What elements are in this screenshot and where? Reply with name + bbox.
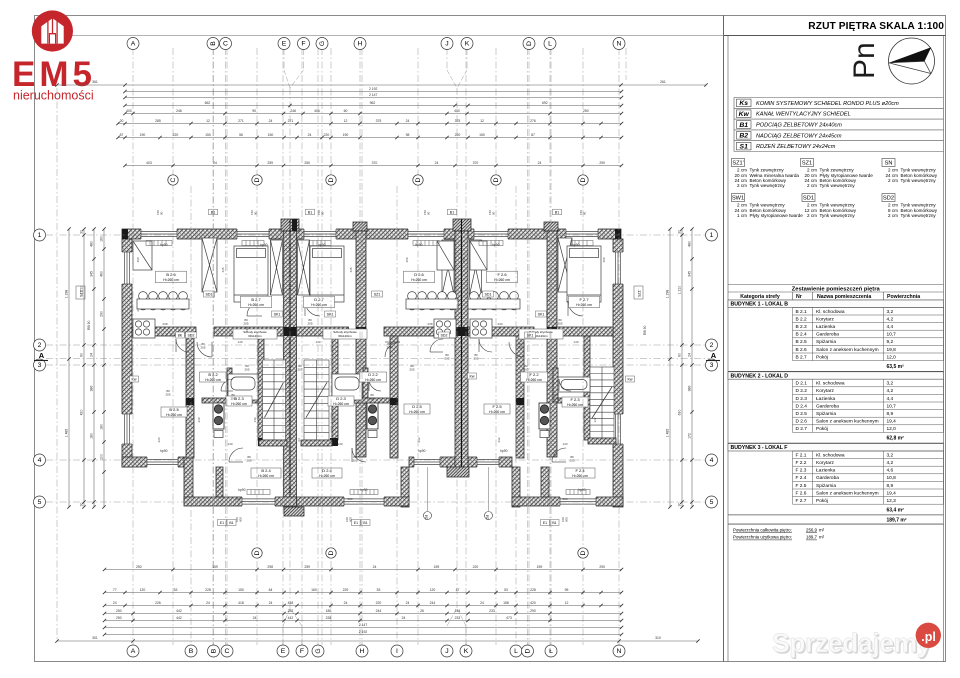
attic stair D [323,329,367,339]
svg-text:2: 2 [710,342,714,349]
partition B bath [227,368,232,402]
svg-text:143: 143 [562,442,567,446]
svg-text:BUDYNEK 3 - LOKAL F: BUDYNEK 3 - LOKAL F [731,445,788,451]
wardrobe F [558,238,572,292]
svg-text:F 2.2: F 2.2 [529,372,539,377]
svg-text:H=260 cm: H=260 cm [163,278,179,282]
room label D 2.4 [312,468,342,478]
svg-text:256,9: 256,9 [806,527,818,532]
svg-text:220: 220 [324,133,330,137]
svg-text:Kl. schodowa: Kl. schodowa [816,381,845,387]
wc F [539,403,550,438]
svg-text:600: 600 [238,517,242,522]
exterior right wall [613,239,623,507]
svg-text:276: 276 [530,119,536,123]
svg-text:400: 400 [454,109,460,113]
svg-text:12: 12 [206,119,210,123]
svg-text:53: 53 [504,588,508,592]
svg-text:Powierzchnia: Powierzchnia [887,294,920,300]
kitchen hob B [133,319,155,338]
svg-text:345: 345 [687,271,691,277]
svg-text:1 210: 1 210 [677,286,681,295]
door F spizarnia [479,339,492,352]
svg-text:140: 140 [245,327,249,332]
svg-text:180: 180 [326,609,332,613]
bed F 2.7 [567,246,601,302]
svg-text:RB 90: RB 90 [87,320,91,330]
svg-text:D: D [580,177,587,182]
wall type SD2 [882,194,938,218]
svg-text:271: 271 [238,119,244,123]
svg-text:140: 140 [253,417,257,422]
internal wall B living-corridor [132,327,196,336]
svg-text:418: 418 [288,601,294,605]
party wall 2 foot [447,467,469,477]
staircase D [304,360,329,440]
svg-text:Nazwa pomieszczenia: Nazwa pomieszczenia [817,294,871,300]
svg-text:205: 205 [386,345,391,349]
svg-text:159: 159 [434,565,440,569]
svg-text:232: 232 [497,437,501,442]
door D corridor [385,342,400,357]
svg-text:10,8: 10,8 [887,475,897,481]
door block B [229,448,243,462]
svg-text:480: 480 [687,241,691,247]
wardrobe F near party wall 2 [470,240,482,295]
grand total row [728,514,944,516]
svg-text:250: 250 [116,609,122,613]
svg-text:190: 190 [343,133,349,137]
door D bedroom [305,301,320,316]
svg-text:24: 24 [89,353,93,357]
wc B [213,403,224,438]
svg-text:400: 400 [126,109,132,113]
svg-text:290: 290 [599,161,605,165]
svg-text:Tynk wewnętrzny: Tynk wewnętrzny [901,178,937,183]
svg-text:590: 590 [235,497,240,501]
svg-text:D 2.5: D 2.5 [412,404,422,409]
svg-text:2 147: 2 147 [359,623,368,627]
svg-text:420: 420 [530,601,536,605]
concrete cores S1 [122,219,621,446]
svg-text:F 2.3: F 2.3 [796,468,807,474]
bathtub F [558,377,590,392]
svg-text:692: 692 [542,101,548,105]
svg-text:F: F [301,41,305,48]
svg-text:B1: B1 [229,521,233,525]
svg-text:2 cm: 2 cm [807,183,817,188]
svg-text:24: 24 [269,601,273,605]
svg-text:95: 95 [565,588,569,592]
svg-text:3,2: 3,2 [887,381,894,387]
svg-text:158: 158 [503,601,509,605]
bathtub D [332,374,362,400]
svg-text:250: 250 [583,109,589,113]
window dim marks below plan [235,517,568,522]
svg-text:24: 24 [402,616,406,620]
svg-text:24: 24 [406,601,410,605]
svg-text:98: 98 [406,133,410,137]
svg-text:246: 246 [290,109,296,113]
svg-text:D 2.7: D 2.7 [796,426,808,432]
svg-text:D: D [328,177,335,182]
svg-text:10,7: 10,7 [887,403,897,409]
EM5 logo circle [12,10,96,102]
svg-text:190: 190 [140,133,146,137]
left dimension chains [64,227,70,508]
svg-text:BUDYNEK 1 - LOKAL B: BUDYNEK 1 - LOKAL B [731,302,789,308]
svg-text:N: N [617,648,622,655]
svg-text:375: 375 [376,119,382,123]
svg-text:205: 205 [246,458,251,462]
svg-text:24: 24 [687,353,691,357]
svg-text:205: 205 [243,321,248,325]
svg-text:B: B [189,648,194,655]
room label F 2.6 [487,271,518,283]
svg-text:B 2.6: B 2.6 [166,272,176,277]
svg-text:Kw: Kw [739,111,750,118]
svg-text:244: 244 [430,601,436,605]
svg-text:64: 64 [269,588,273,592]
interior dimension notes [136,257,606,501]
svg-text:600: 600 [348,517,352,522]
svg-text:D: D [254,177,261,182]
svg-text:53: 53 [377,588,381,592]
svg-text:285: 285 [155,119,161,123]
svg-text:I: I [396,648,398,655]
svg-text:H=260 cm: H=260 cm [365,378,381,382]
svg-text:12,3: 12,3 [887,498,897,504]
svg-text:220: 220 [455,133,461,137]
svg-text:386: 386 [687,386,691,392]
svg-text:10,7: 10,7 [887,332,897,338]
svg-text:D 2.1: D 2.1 [796,381,808,387]
dining set B [137,292,189,310]
svg-text:2 cm: 2 cm [888,213,898,218]
svg-text:370: 370 [473,161,479,165]
partition block B hall [216,467,223,497]
wall type SD1 [802,194,857,218]
svg-text:Kl. schodowa: Kl. schodowa [816,309,845,315]
svg-text:D 2.3: D 2.3 [796,396,808,402]
room label D 2.2 [360,372,387,382]
svg-text:J: J [445,41,448,48]
svg-text:3: 3 [38,362,42,369]
svg-text:12,0: 12,0 [887,426,897,432]
misc small tags [204,291,215,297]
svg-text:420: 420 [79,410,83,416]
svg-text:SZ1′: SZ1′ [732,161,743,167]
svg-text:D 2.4: D 2.4 [796,403,808,409]
block B left wall [184,457,193,503]
svg-text:Tynk wewnętrzny: Tynk wewnętrzny [820,183,856,188]
building section BUDYNEK 3 - LOKAL F [728,444,944,514]
bathtub B [228,374,258,400]
room label B 2.4 [251,468,281,478]
svg-text:D 2.3: D 2.3 [336,396,346,401]
dining set F [468,292,520,310]
svg-text:B 2.4: B 2.4 [796,332,808,338]
svg-text:B 2.5: B 2.5 [169,407,179,412]
room label F 2.2 [521,372,548,382]
party wall 1 joint line [289,219,291,507]
svg-text:Dd: Dd [425,515,429,520]
svg-text:19,4: 19,4 [887,490,897,496]
svg-text:Garderoba: Garderoba [816,403,839,409]
svg-text:Ks: Ks [739,100,748,107]
svg-text:2: 2 [38,342,42,349]
svg-text:F 2.5: F 2.5 [796,483,807,489]
svg-text:442: 442 [288,616,294,620]
svg-text:140: 140 [237,340,242,344]
svg-text:C: C [170,177,177,182]
svg-text:205: 205 [165,392,170,396]
svg-text:8,9: 8,9 [887,483,894,489]
svg-text:hp90: hp90 [415,243,423,247]
wardrobe B near party wall [271,240,283,295]
svg-text:Spiżarnia: Spiżarnia [816,339,836,345]
svg-text:D 2.6: D 2.6 [796,419,808,425]
svg-text:4,2: 4,2 [887,460,894,466]
svg-text:2 147: 2 147 [369,93,378,97]
svg-text:60x120cm: 60x120cm [338,334,352,338]
room label F 2.5 [484,404,510,414]
svg-text:Spiżarnia: Spiżarnia [816,483,836,489]
svg-text:246: 246 [176,109,182,113]
svg-text:Garderoba: Garderoba [816,332,839,338]
svg-text:1 485: 1 485 [665,429,669,438]
svg-text:Spiżarnia: Spiżarnia [816,411,836,417]
svg-text:D 2.6: D 2.6 [414,272,424,277]
exterior bottom wall right segment [468,457,512,467]
svg-text:1 485: 1 485 [64,429,68,438]
top dimension chains [123,87,623,93]
svg-text:56: 56 [239,133,243,137]
svg-text:460: 460 [405,257,409,262]
svg-text:159: 159 [212,565,218,569]
svg-text:G: G [319,41,326,46]
svg-text:259: 259 [267,161,273,165]
svg-text:F: F [300,648,304,655]
wc D [367,403,378,438]
svg-text:100: 100 [99,454,103,460]
door B bath [221,379,233,391]
svg-text:2 cm: 2 cm [888,178,898,183]
svg-text:RZUT PIĘTRA SKALA 1:100: RZUT PIĘTRA SKALA 1:100 [808,21,944,32]
svg-text:J: J [445,648,448,655]
svg-text:77: 77 [113,588,117,592]
partition F corridor [516,336,524,458]
door block F [552,448,566,462]
door block D [352,448,366,462]
svg-text:220: 220 [173,133,179,137]
svg-text:Kl. schodowa: Kl. schodowa [816,452,845,458]
svg-text:B1: B1 [450,210,454,214]
svg-text:230: 230 [521,417,525,422]
wall type SZ1 [801,159,874,189]
staircase B [263,360,286,440]
summary powierzchnia lines [733,527,825,539]
svg-text:442: 442 [176,616,182,620]
svg-text:H=260 cm: H=260 cm [567,403,583,407]
svg-text:271: 271 [288,119,294,123]
svg-text:B 2.7: B 2.7 [796,354,808,360]
room label B 2.7 [241,296,272,308]
hp90 annotations [160,243,586,492]
wall type SZ1′ [732,159,800,189]
partition D bath [363,368,368,402]
door F bedroom [568,301,583,316]
svg-text:Dd: Dd [486,515,490,520]
svg-text:150: 150 [238,588,244,592]
svg-text:m²: m² [819,527,825,532]
svg-text:m²: m² [819,535,825,540]
svg-text:F 2.6: F 2.6 [497,272,507,277]
svg-text:228: 228 [205,588,211,592]
svg-text:Korytarz: Korytarz [816,388,834,394]
partition D corridor [390,336,398,458]
exterior left wall [122,239,132,467]
svg-text:244: 244 [376,609,382,613]
exterior bottom wall left segment [122,457,184,467]
svg-text:hp90: hp90 [238,488,246,492]
svg-text:120: 120 [140,588,146,592]
partition F bath [553,368,558,402]
svg-text:SW1: SW1 [732,196,744,202]
Sprzedajemy.pl watermark [772,623,941,660]
svg-text:H=260 cm: H=260 cm [311,303,327,307]
svg-text:A: A [131,41,136,48]
stair sill B [259,440,287,446]
svg-text:KANAŁ WENTYLACYJNY SCHIEDEL: KANAŁ WENTYLACYJNY SCHIEDEL [756,112,851,118]
svg-text:445: 445 [554,267,558,272]
wall tag SZ1 right [634,286,643,299]
svg-text:Garderoba: Garderoba [816,475,839,481]
svg-text:A: A [131,648,136,655]
section marker A right [706,351,720,361]
svg-text:Nr: Nr [796,294,802,300]
room label D 2.3 [328,396,354,406]
svg-text:4,2: 4,2 [887,388,894,394]
block D right wall [401,467,409,507]
wall tag SZ1 left [76,286,85,299]
bed D 2.7 [310,246,344,302]
svg-text:24: 24 [538,161,542,165]
internal wall B bedroom-corridor [214,327,284,336]
svg-text:361: 361 [92,80,98,84]
svg-text:RB 90: RB 90 [643,325,647,335]
svg-text:F 2.7: F 2.7 [796,498,807,504]
wardrobe D near party wall 2 [442,240,454,295]
svg-text:SZ1: SZ1 [802,161,812,167]
svg-text:2 192: 2 192 [359,630,368,634]
svg-text:H=260 cm: H=260 cm [576,303,592,307]
svg-text:19,4: 19,4 [887,419,897,425]
room label D 2.7 [304,296,335,308]
svg-text:24: 24 [206,601,210,605]
svg-text:B1: B1 [739,122,748,129]
window dim marks above plan [156,210,586,215]
svg-text:Pokój: Pokój [816,426,828,432]
svg-text:24: 24 [253,616,257,620]
svg-text:250: 250 [136,565,142,569]
svg-text:230: 230 [497,322,502,326]
svg-text:19,8: 19,8 [887,347,897,353]
svg-text:220: 220 [473,565,479,569]
svg-text:205: 205 [557,321,562,325]
svg-text:hp90: hp90 [160,449,168,453]
door D bath [369,379,381,391]
grid bubbles upper intermediate [168,175,178,185]
svg-text:hp90: hp90 [500,449,508,453]
svg-text:Ł: Ł [549,648,553,655]
internal wall D unit [356,231,366,457]
svg-text:Tynk wewnętrzny: Tynk wewnętrzny [820,213,856,218]
svg-text:nieruchomości: nieruchomości [13,89,94,103]
svg-text:298: 298 [267,565,273,569]
svg-text:9,2: 9,2 [887,339,894,345]
svg-text:140: 140 [337,442,342,446]
svg-text:5: 5 [38,499,42,506]
svg-text:60x120cm: 60x120cm [248,334,262,338]
wardrobe B [202,238,217,292]
svg-text:hp90: hp90 [572,243,580,247]
svg-text:Łazienka: Łazienka [816,324,836,330]
svg-text:290: 290 [530,609,536,613]
svg-text:232: 232 [417,437,421,442]
svg-text:H=260 cm: H=260 cm [333,402,349,406]
svg-text:4,6: 4,6 [887,468,894,474]
svg-text:Korytarz: Korytarz [816,460,834,466]
svg-text:250: 250 [304,161,310,165]
svg-text:E1: E1 [543,521,547,525]
legend row B1 [737,121,843,129]
svg-text:150: 150 [479,133,485,137]
svg-text:H=260 cm: H=260 cm [572,474,588,478]
svg-text:2 cm: 2 cm [737,183,747,188]
section marker A left [34,351,48,361]
exterior bottom wall middle segment [409,457,455,467]
svg-text:SD2: SD2 [441,333,448,337]
kitchen hob D [434,319,456,338]
svg-text:290: 290 [99,311,103,317]
svg-text:H=260 cm: H=260 cm [231,402,247,406]
svg-text:8K: 8K [178,333,183,337]
legend table [734,98,944,152]
svg-text:Ks: Ks [543,433,547,437]
svg-text:K: K [465,41,470,48]
svg-text:Łazienka: Łazienka [816,468,836,474]
svg-text:8,9: 8,9 [887,411,894,417]
svg-text:205: 205 [569,458,574,462]
svg-text:RDZEŃ ŻELBETOWY 24x24cm: RDZEŃ ŻELBETOWY 24x24cm [756,143,836,150]
svg-text:90: 90 [253,211,257,215]
svg-text:310: 310 [655,636,661,640]
internal wall D bedroom-corridor [297,327,349,336]
horizontal grid axes dashed [46,235,710,502]
svg-text:63,4 m²: 63,4 m² [887,507,905,513]
svg-text:460: 460 [602,257,606,262]
axis funnels [283,70,467,626]
stair sill D [301,440,332,446]
svg-text:B 2.7: B 2.7 [251,297,261,302]
svg-text:150: 150 [205,133,211,137]
svg-text:B: B [211,648,218,653]
building section BUDYNEK 1 - LOKAL B [728,300,944,370]
door D spizarnia [430,339,443,352]
svg-text:3,2: 3,2 [887,309,894,315]
svg-text:261: 261 [660,80,666,84]
